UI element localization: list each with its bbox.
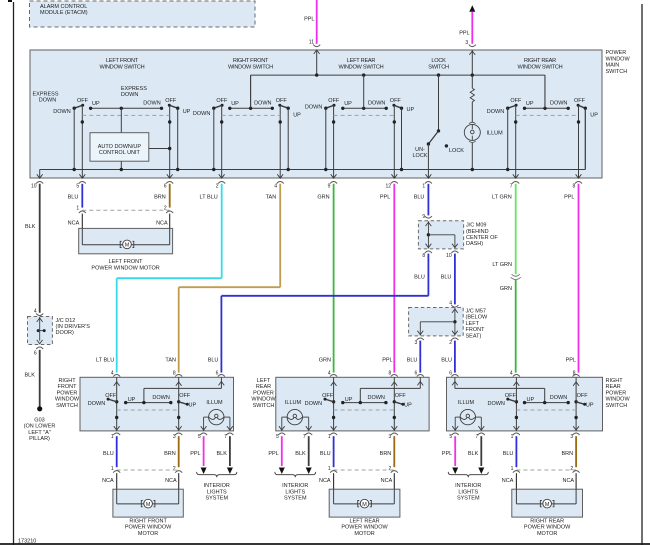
svg-text:G03: G03 [34,417,44,423]
svg-text:GRN: GRN [319,357,331,363]
svg-text:1: 1 [511,434,514,440]
svg-text:WINDOW: WINDOW [251,397,276,403]
svg-text:DOWN: DOWN [53,109,70,115]
svg-text:DOWN: DOWN [121,92,138,98]
svg-text:ILLUM: ILLUM [458,400,475,406]
svg-text:ILLUM: ILLUM [487,131,504,137]
svg-text:SWITCH: SWITCH [56,403,78,409]
svg-text:7: 7 [224,434,227,440]
svg-text:3: 3 [173,434,176,440]
svg-text:DOWN: DOWN [550,395,567,401]
svg-text:WINDOW SWITCH: WINDOW SWITCH [100,64,145,70]
svg-text:OFF: OFF [216,98,228,104]
svg-text:NCA: NCA [562,478,574,484]
svg-text:UP: UP [526,101,534,107]
svg-text:WINDOW: WINDOW [55,397,80,403]
svg-text:INTERIOR: INTERIOR [455,483,481,489]
svg-text:LEFT REAR: LEFT REAR [347,58,376,64]
svg-text:LIGHTS: LIGHTS [207,489,227,495]
svg-text:4: 4 [510,371,513,377]
svg-text:DOWN: DOWN [152,395,169,401]
svg-text:SYSTEM: SYSTEM [205,496,228,502]
svg-text:1: 1 [111,434,114,440]
svg-text:SWITCH: SWITCH [606,403,628,409]
svg-text:J/C M57: J/C M57 [466,309,486,315]
svg-text:LEFT FRONT: LEFT FRONT [106,58,139,64]
svg-text:6: 6 [34,351,37,357]
svg-text:MAIN: MAIN [606,63,620,69]
svg-text:4: 4 [274,183,277,189]
svg-text:BLU: BLU [320,451,331,457]
svg-text:J/C D12: J/C D12 [56,318,76,324]
svg-text:M: M [362,502,367,508]
svg-text:LEFT: LEFT [257,378,271,384]
svg-text:BLK: BLK [25,373,36,379]
svg-text:CENTER OF: CENTER OF [466,235,498,241]
svg-text:FRONT: FRONT [466,327,486,333]
svg-text:2: 2 [570,466,573,472]
svg-text:(IN DRIVER'S: (IN DRIVER'S [56,324,91,330]
svg-text:DOWN: DOWN [88,401,105,407]
svg-text:MOTOR: MOTOR [354,531,374,537]
svg-text:POWER WINDOW MOTOR: POWER WINDOW MOTOR [91,265,159,271]
svg-text:1: 1 [111,466,114,472]
svg-text:J/C M09: J/C M09 [466,223,486,229]
svg-text:POWER WINDOW: POWER WINDOW [524,525,571,531]
svg-text:WINDOW SWITCH: WINDOW SWITCH [228,64,273,70]
svg-text:MODULE (ETACM): MODULE (ETACM) [40,10,88,16]
svg-text:TAN: TAN [266,195,277,201]
svg-text:OFF: OFF [510,98,522,104]
svg-text:UP: UP [231,101,239,107]
svg-text:UP: UP [293,113,301,119]
svg-text:BLU: BLU [414,195,425,201]
svg-text:BLK: BLK [295,451,306,457]
svg-text:FRONT: FRONT [58,384,78,390]
svg-text:UP: UP [586,402,594,408]
svg-text:BRN: BRN [154,195,166,201]
svg-text:BLU: BLU [208,357,219,363]
svg-text:(BELOW: (BELOW [466,315,489,321]
svg-text:2: 2 [389,466,392,472]
svg-text:PPL: PPL [380,195,390,201]
svg-text:7: 7 [303,434,306,440]
svg-text:SWITCH: SWITCH [606,69,628,75]
svg-text:POWER WINDOW: POWER WINDOW [125,525,172,531]
svg-text:POWER: POWER [606,50,627,56]
svg-text:LT GRN: LT GRN [492,262,512,268]
svg-text:UP: UP [128,397,136,403]
svg-text:NCA: NCA [381,478,393,484]
svg-text:LEFT FRONT: LEFT FRONT [109,259,143,265]
svg-text:BLU: BLU [414,275,425,281]
svg-text:NCA: NCA [502,478,514,484]
svg-text:OFF: OFF [574,98,586,104]
svg-text:POWER: POWER [253,390,274,396]
svg-text:MOTOR: MOTOR [138,531,158,537]
svg-text:DOWN: DOWN [550,100,567,106]
svg-text:LOCK: LOCK [413,153,428,159]
svg-text:WINDOW: WINDOW [606,56,631,62]
svg-text:SYSTEM: SYSTEM [457,496,480,502]
svg-text:3: 3 [415,340,418,346]
svg-text:OFF: OFF [505,393,517,399]
svg-text:3: 3 [389,434,392,440]
svg-text:BRN: BRN [561,451,573,457]
svg-text:2: 2 [449,340,452,346]
svg-text:UP: UP [590,113,598,119]
svg-text:UP: UP [92,101,100,107]
svg-text:CONTROL UNIT: CONTROL UNIT [99,150,141,156]
svg-text:UP: UP [527,397,535,403]
svg-text:5: 5 [76,183,79,189]
svg-text:12: 12 [386,183,392,189]
svg-text:BLU: BLU [103,451,114,457]
svg-text:(BEHIND: (BEHIND [466,229,489,235]
svg-text:OFF: OFF [328,98,340,104]
svg-text:1: 1 [511,466,514,472]
svg-text:SYSTEM: SYSTEM [284,496,307,502]
svg-text:RIGHT: RIGHT [606,378,624,384]
svg-text:DOWN: DOWN [305,401,322,407]
svg-text:UP: UP [404,402,412,408]
svg-text:NCA: NCA [68,220,80,226]
svg-text:PPL: PPL [304,16,314,22]
svg-text:PPL: PPL [382,357,392,363]
svg-text:SWITCH: SWITCH [253,403,275,409]
svg-text:MOTOR: MOTOR [537,531,557,537]
svg-text:10: 10 [31,183,37,189]
svg-text:OFF: OFF [165,98,177,104]
svg-text:DOWN: DOWN [39,97,56,103]
svg-text:DOWN: DOWN [368,100,385,106]
svg-text:ILLUM: ILLUM [285,400,302,406]
svg-text:BLK: BLK [25,224,36,230]
svg-text:LOCK: LOCK [449,148,464,154]
svg-text:PPL: PPL [564,195,574,201]
svg-text:BRN: BRN [164,451,176,457]
svg-text:LEFT "A": LEFT "A" [28,430,50,436]
svg-text:AUTO DOWN/UP: AUTO DOWN/UP [98,144,142,150]
svg-text:OFF: OFF [179,393,191,399]
svg-text:DOWN: DOWN [193,111,210,117]
svg-text:BLK: BLK [216,451,227,457]
svg-text:LEFT REAR: LEFT REAR [349,518,379,524]
svg-text:TAN: TAN [165,357,176,363]
svg-text:(ON LOWER: (ON LOWER [24,424,56,430]
svg-text:LEFT: LEFT [466,321,480,327]
svg-text:8: 8 [573,183,576,189]
svg-text:LIGHTS: LIGHTS [458,489,478,495]
svg-text:DOWN: DOWN [254,100,271,106]
svg-text:OFF: OFF [322,393,334,399]
svg-text:9: 9 [422,214,425,220]
svg-text:WINDOW: WINDOW [606,397,631,403]
svg-text:M: M [545,502,550,508]
svg-text:M: M [125,243,130,249]
svg-text:DOOR): DOOR) [56,330,75,336]
svg-text:3: 3 [570,434,573,440]
svg-text:UP: UP [344,101,352,107]
svg-text:7: 7 [476,434,479,440]
svg-text:UP: UP [345,397,353,403]
svg-text:POWER: POWER [606,390,627,396]
svg-text:PPL: PPL [459,31,469,37]
svg-text:OFF: OFF [77,98,89,104]
svg-text:LT GRN: LT GRN [492,195,512,201]
svg-text:POWER WINDOW: POWER WINDOW [341,525,388,531]
svg-text:OFF: OFF [395,393,407,399]
svg-text:7: 7 [510,183,513,189]
svg-text:RIGHT REAR: RIGHT REAR [524,58,556,64]
svg-text:5: 5 [276,434,279,440]
svg-text:1: 1 [328,466,331,472]
svg-text:REAR: REAR [606,384,621,390]
svg-text:9: 9 [328,183,331,189]
svg-text:NCA: NCA [165,478,177,484]
svg-text:PPL: PPL [442,451,452,457]
svg-text:DOWN: DOWN [487,109,504,115]
svg-text:BLU: BLU [407,357,418,363]
svg-text:OFF: OFF [390,98,402,104]
svg-text:2: 2 [173,466,176,472]
svg-text:LT BLU: LT BLU [96,357,114,363]
svg-text:DOWN: DOWN [305,105,322,111]
svg-text:1: 1 [76,205,79,211]
svg-text:8: 8 [422,253,425,259]
svg-text:LOCK: LOCK [431,58,446,64]
svg-text:PPL: PPL [268,451,278,457]
svg-text:LIGHTS: LIGHTS [285,489,305,495]
svg-text:OFF: OFF [276,98,288,104]
svg-text:BLU: BLU [503,451,514,457]
svg-text:1: 1 [328,434,331,440]
svg-text:RIGHT FRONT: RIGHT FRONT [233,58,269,64]
svg-text:RIGHT FRONT: RIGHT FRONT [129,518,167,524]
svg-text:5: 5 [198,434,201,440]
svg-text:BLK: BLK [468,451,479,457]
svg-text:2: 2 [216,183,219,189]
svg-text:5: 5 [449,434,452,440]
svg-text:ILLUM: ILLUM [206,400,223,406]
svg-text:10: 10 [446,253,452,259]
svg-text:BLU: BLU [441,275,452,281]
svg-text:LT BLU: LT BLU [200,195,218,201]
svg-text:NCA: NCA [319,478,331,484]
svg-text:INTERIOR: INTERIOR [204,483,230,489]
svg-text:PILLAR): PILLAR) [29,436,50,442]
svg-text:RIGHT: RIGHT [58,378,76,384]
svg-text:M: M [146,502,151,508]
svg-text:173210: 173210 [18,539,36,545]
svg-text:WINDOW SWITCH: WINDOW SWITCH [518,64,563,70]
svg-text:DOWN: DOWN [367,395,384,401]
svg-text:BLU: BLU [68,195,79,201]
svg-text:GRN: GRN [500,286,512,292]
svg-text:RIGHT REAR: RIGHT REAR [530,518,564,524]
svg-text:WINDOW SWITCH: WINDOW SWITCH [339,64,384,70]
svg-text:NCA: NCA [102,478,114,484]
svg-text:OFF: OFF [577,393,589,399]
svg-text:BLU: BLU [441,357,452,363]
svg-text:NCA: NCA [156,220,168,226]
svg-text:3: 3 [465,40,468,46]
svg-text:POWER: POWER [57,390,78,396]
svg-text:UP: UP [189,402,197,408]
svg-text:OFF: OFF [105,393,117,399]
svg-text:6: 6 [164,183,167,189]
svg-text:SWITCH: SWITCH [428,64,449,70]
svg-text:DOWN: DOWN [487,401,504,407]
svg-text:REAR: REAR [256,384,271,390]
svg-text:BRN: BRN [380,451,392,457]
svg-text:SEAT): SEAT) [466,333,482,339]
svg-text:DOWN: DOWN [143,100,160,106]
svg-text:UP: UP [183,109,191,115]
svg-text:INTERIOR: INTERIOR [282,483,308,489]
svg-text:1: 1 [422,183,425,189]
svg-text:UP: UP [407,107,415,113]
svg-text:DASH): DASH) [466,241,483,247]
svg-text:PPL: PPL [190,451,200,457]
svg-text:PPL: PPL [566,357,576,363]
svg-text:GRN: GRN [317,195,329,201]
